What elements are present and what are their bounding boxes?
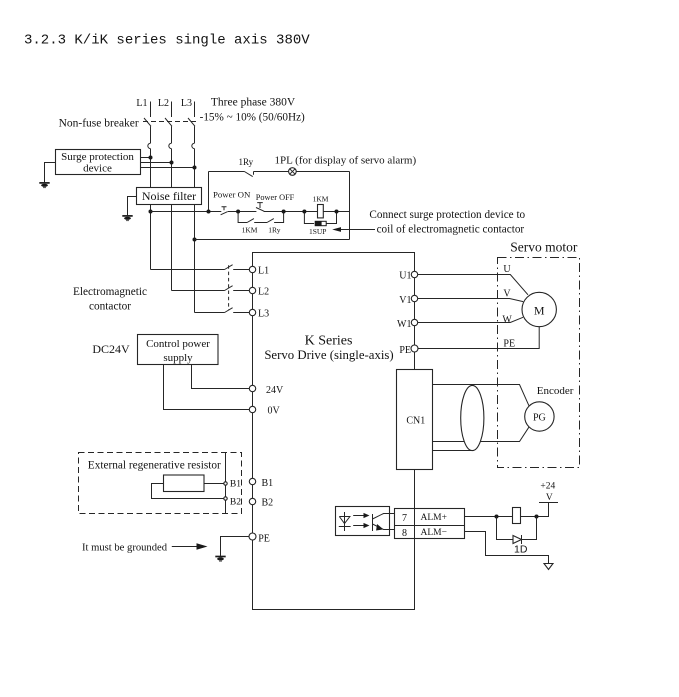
svg-text:B2: B2 xyxy=(230,498,241,508)
svg-text:L3: L3 xyxy=(258,308,269,319)
svg-text:ALM+: ALM+ xyxy=(421,513,447,523)
svg-text:Power ON: Power ON xyxy=(213,190,251,200)
svg-text:1SUP: 1SUP xyxy=(309,227,327,236)
svg-text:supply: supply xyxy=(163,352,193,364)
svg-text:Control power: Control power xyxy=(146,338,210,350)
svg-text:U: U xyxy=(503,264,511,275)
svg-text:L2: L2 xyxy=(258,287,269,298)
svg-text:-15% ~ 10% (50/60Hz): -15% ~ 10% (50/60Hz) xyxy=(200,112,305,124)
svg-text:B2: B2 xyxy=(262,498,274,509)
svg-text:U1: U1 xyxy=(399,271,411,282)
svg-text:8: 8 xyxy=(402,528,407,539)
svg-text:Surge protection: Surge protection xyxy=(61,151,134,163)
svg-text:+24: +24 xyxy=(540,482,555,492)
svg-text:1Ry: 1Ry xyxy=(268,226,280,235)
svg-text:1PL (for display of servo alar: 1PL (for display of servo alarm) xyxy=(275,155,417,167)
svg-text:L3: L3 xyxy=(181,98,192,109)
svg-text:contactor: contactor xyxy=(89,300,131,312)
svg-text:Servo motor: Servo motor xyxy=(510,240,578,255)
svg-text:24V: 24V xyxy=(266,385,284,396)
svg-text:B1: B1 xyxy=(262,478,274,489)
svg-text:L1: L1 xyxy=(258,265,269,276)
svg-text:B1: B1 xyxy=(230,479,241,489)
svg-text:1KM: 1KM xyxy=(313,194,329,203)
svg-text:PE: PE xyxy=(503,339,515,350)
svg-text:3.2.3 K/iK series single axis: 3.2.3 K/iK series single axis 380V xyxy=(24,33,310,49)
svg-text:Power OFF: Power OFF xyxy=(256,193,295,202)
svg-text:1D: 1D xyxy=(514,544,528,556)
svg-text:Connect surge protection devic: Connect surge protection device to xyxy=(369,209,525,221)
svg-text:Three phase 380V: Three phase 380V xyxy=(211,97,296,109)
svg-text:K Series: K Series xyxy=(305,333,353,348)
svg-text:PE: PE xyxy=(399,345,411,356)
svg-text:DC24V: DC24V xyxy=(92,342,130,356)
svg-text:1Ry: 1Ry xyxy=(239,157,254,167)
svg-text:0V: 0V xyxy=(268,406,281,417)
svg-text:7: 7 xyxy=(402,513,407,524)
svg-text:1KM: 1KM xyxy=(242,226,258,235)
svg-text:M: M xyxy=(534,303,545,317)
svg-text:External regenerative resistor: External regenerative resistor xyxy=(88,459,221,471)
svg-text:V: V xyxy=(546,493,553,503)
svg-text:CN1: CN1 xyxy=(406,416,425,427)
svg-text:V: V xyxy=(503,288,511,299)
svg-text:Encoder: Encoder xyxy=(537,385,574,397)
svg-text:Non-fuse breaker: Non-fuse breaker xyxy=(59,118,139,130)
svg-text:PE: PE xyxy=(258,534,270,545)
svg-text:L1: L1 xyxy=(136,98,147,109)
svg-text:coil of electromagnetic contac: coil of electromagnetic contactor xyxy=(377,224,525,236)
svg-text:Noise filter: Noise filter xyxy=(142,189,196,203)
svg-text:ALM−: ALM− xyxy=(421,528,447,538)
svg-text:Servo Drive (single-axis): Servo Drive (single-axis) xyxy=(264,348,393,362)
svg-text:W1: W1 xyxy=(397,319,411,330)
svg-text:device: device xyxy=(83,163,112,175)
svg-text:V1: V1 xyxy=(399,295,411,306)
svg-text:W: W xyxy=(502,314,512,325)
svg-text:It must be grounded: It must be grounded xyxy=(82,543,168,554)
svg-text:PG: PG xyxy=(533,413,546,424)
svg-text:Electromagnetic: Electromagnetic xyxy=(73,286,147,298)
svg-text:L2: L2 xyxy=(158,98,169,109)
